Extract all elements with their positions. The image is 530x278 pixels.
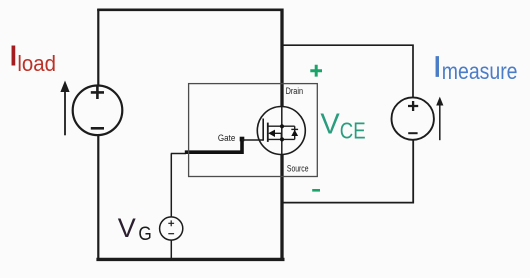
I_load minus sign [91,127,104,130]
wire measure top [284,45,414,98]
V_CE minus mark [312,189,320,192]
wire top rail [97,9,283,12]
I_load direction arrow [64,88,66,135]
Q1 body diode wire [294,126,296,139]
wire gate thick L [185,139,242,153]
I_measure direction arrow [439,102,441,140]
wire source rail lower (thick) [280,154,283,260]
svg-text:V: V [118,213,136,243]
node source junction dot [280,137,284,141]
svg-text:V: V [320,109,340,141]
svg-text:CE: CE [340,117,366,143]
wire left rail upper [97,9,99,86]
wire bottom rail [96,258,284,261]
current source I_load circle [73,86,123,136]
transistor Q1 body circle [257,107,305,155]
svg-text:Source: Source [287,163,309,173]
wire measure bottom [284,140,414,203]
I_measure plus sign [408,101,418,111]
wire drain rail upper (thick) [280,9,283,107]
V_G plus sign [168,220,174,226]
svg-text:I: I [10,40,18,71]
V_CE plus mark [310,65,322,77]
Q1 gate bar [262,119,264,141]
wire gate thin horizontal [171,153,186,155]
Q1 body stub with arrow [275,133,282,139]
wire left rail lower [97,135,99,260]
Q1 center channel wire thin [281,107,283,155]
wire V_G to bottom rail [170,240,172,259]
V_G minus sign [168,233,174,235]
voltage source V_G circle [160,217,183,240]
Q1 source stub [268,138,295,140]
I_measure minus sign [408,132,417,134]
Q1 channel bar [267,123,269,142]
node drain junction dot [280,124,284,128]
svg-text:Drain: Drain [286,86,303,96]
Q1 body diode cathode bar [291,128,298,130]
current source I_measure circle [392,97,434,139]
Q1 gate lead [242,139,263,141]
wire gate vertical thin to V_G [170,154,172,218]
node gate pin dot [240,137,245,142]
DUT box [189,84,318,177]
svg-text:measure: measure [442,58,518,84]
Q1 drain stub [268,125,295,127]
Q1 body diode triangle [291,130,298,136]
svg-text:I: I [433,51,441,83]
I_load plus sign [91,86,104,99]
svg-text:load: load [17,51,56,76]
svg-text:Gate: Gate [218,133,235,143]
svg-text:G: G [138,224,151,245]
